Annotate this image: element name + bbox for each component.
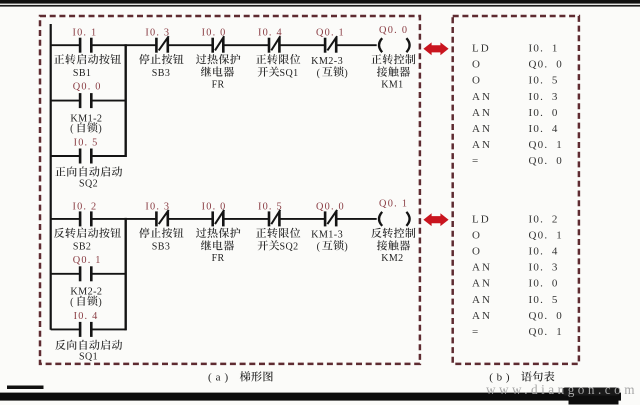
label Q0.1 branch rung2 bbox=[73, 255, 102, 266]
svg-text:SQ2: SQ2 bbox=[280, 242, 299, 253]
label Q0.1 coil rung2 bbox=[379, 199, 408, 210]
label Q0.0 branch rung1 bbox=[73, 81, 102, 92]
svg-text:I0. 3: I0. 3 bbox=[529, 91, 559, 103]
statement list block 2 bbox=[472, 214, 563, 338]
contact Q0.1 NC interlock KM2-3 bbox=[324, 36, 338, 53]
label Q0.0 rung2 bbox=[316, 202, 345, 213]
wire: rung 2 parallel branch 1 line bbox=[51, 273, 80, 275]
svg-text:SQ2: SQ2 bbox=[79, 179, 98, 190]
svg-text:AN: AN bbox=[472, 294, 492, 306]
svg-text:AN: AN bbox=[472, 278, 492, 290]
svg-text:(: ( bbox=[317, 68, 321, 79]
wire: rung 1 parallel branch 2 line bbox=[51, 155, 80, 157]
svg-text:I0. 5: I0. 5 bbox=[74, 138, 99, 149]
svg-text:I0. 4: I0. 4 bbox=[258, 28, 283, 39]
dashed frame around ladder diagram (a) bbox=[40, 16, 420, 364]
svg-text:AN: AN bbox=[472, 107, 492, 119]
label I0.0 rung1 bbox=[202, 28, 227, 39]
label I0.4 rung1 bbox=[258, 28, 283, 39]
bottom small black bar bbox=[7, 386, 44, 390]
contact I0.4 NO auto start SQ1 bbox=[79, 322, 93, 337]
contact Q0.0 NC interlock KM1-3 bbox=[324, 210, 338, 227]
svg-text:I0. 0: I0. 0 bbox=[529, 278, 559, 290]
label 正转限位开关SQ2 bbox=[256, 228, 300, 253]
bottom border band bbox=[0, 388, 621, 405]
wire: rung 1 parallel branch 1 line bbox=[51, 100, 80, 102]
label I0.3 rung2 bbox=[145, 202, 170, 213]
svg-text:I0. 0: I0. 0 bbox=[202, 28, 227, 39]
contact Q0.0 NO self-hold KM1-2 bbox=[79, 93, 93, 108]
svg-text:LD: LD bbox=[472, 43, 491, 55]
svg-text:SB3: SB3 bbox=[152, 68, 170, 79]
caption (a) ladder diagram bbox=[208, 371, 273, 383]
wire: rung 2 main line segments bbox=[51, 218, 377, 220]
svg-text:I0. 4: I0. 4 bbox=[529, 123, 559, 135]
svg-text:KM1-3: KM1-3 bbox=[311, 230, 343, 241]
label Q0.1 rung1 bbox=[316, 28, 345, 39]
svg-text:AN: AN bbox=[472, 91, 492, 103]
svg-text:I0. 2: I0. 2 bbox=[529, 214, 559, 226]
svg-text:O: O bbox=[472, 230, 482, 242]
svg-text:(: ( bbox=[208, 371, 212, 383]
svg-text:Q0. 0: Q0. 0 bbox=[316, 202, 345, 213]
svg-text:Q0. 0: Q0. 0 bbox=[73, 81, 102, 92]
svg-text:O: O bbox=[472, 75, 482, 87]
svg-text:FR: FR bbox=[212, 253, 225, 264]
label 停止按钮 SB3 rung1 bbox=[139, 54, 183, 79]
svg-text:a: a bbox=[216, 371, 221, 383]
svg-text:Q0. 1: Q0. 1 bbox=[73, 255, 102, 266]
red double arrow rung2 bbox=[423, 213, 448, 226]
svg-text:KM1: KM1 bbox=[381, 79, 403, 90]
svg-text:I0. 1: I0. 1 bbox=[72, 28, 97, 39]
svg-text:Q0. 0: Q0. 0 bbox=[529, 59, 563, 71]
label I0.3 rung1 bbox=[145, 28, 170, 39]
coil Q0.1 contactor KM2 bbox=[379, 212, 410, 226]
svg-text:I0. 3: I0. 3 bbox=[145, 202, 170, 213]
svg-text:O: O bbox=[472, 59, 482, 71]
contact I0.3 NC stop button SB3 rung 2 bbox=[155, 210, 169, 227]
contact I0.1 NO start button SB1 bbox=[79, 38, 93, 53]
statement list block 1 bbox=[472, 43, 563, 168]
svg-text:Q0. 1: Q0. 1 bbox=[316, 28, 345, 39]
label 正转启动按钮 SB1 bbox=[54, 54, 121, 79]
svg-text:I0. 3: I0. 3 bbox=[145, 28, 170, 39]
svg-text:AN: AN bbox=[472, 123, 492, 135]
svg-text:(: ( bbox=[70, 124, 74, 135]
dashed frame around statement list (b) bbox=[453, 16, 579, 364]
svg-text:KM2: KM2 bbox=[381, 253, 403, 264]
svg-text:SB3: SB3 bbox=[152, 242, 170, 253]
svg-text:LD: LD bbox=[472, 214, 491, 226]
svg-text:I0. 2: I0. 2 bbox=[72, 202, 97, 213]
svg-text:I0. 4: I0. 4 bbox=[74, 311, 99, 322]
svg-text:Q0. 1: Q0. 1 bbox=[529, 326, 563, 338]
svg-text:SQ1: SQ1 bbox=[280, 68, 299, 79]
svg-text:=: = bbox=[472, 155, 480, 167]
svg-text:=: = bbox=[472, 326, 480, 338]
top border band bbox=[0, 0, 640, 7]
svg-text:Q0. 0: Q0. 0 bbox=[529, 310, 563, 322]
label 停止按钮 SB3 rung2 bbox=[139, 228, 183, 253]
svg-text:I0. 3: I0. 3 bbox=[529, 262, 559, 274]
svg-text:Q0. 1: Q0. 1 bbox=[529, 230, 563, 242]
contact I0.0 NC overload relay FR rung 2 bbox=[211, 210, 224, 227]
label I0.0 rung2 bbox=[202, 202, 227, 213]
svg-text:I0. 5: I0. 5 bbox=[529, 75, 559, 87]
svg-text:KM2-2: KM2-2 bbox=[70, 287, 102, 298]
label KM1-2 自锁 bbox=[70, 113, 102, 134]
contact Q0.1 NO self-hold KM2-2 bbox=[79, 266, 93, 281]
label 正转控制接触器 KM1 bbox=[371, 54, 415, 90]
label I0.4 branch rung2 bbox=[74, 311, 99, 322]
label KM1-3 互锁 bbox=[311, 230, 348, 253]
svg-text:I0. 0: I0. 0 bbox=[202, 202, 227, 213]
contact I0.5 NO auto start SQ2 bbox=[79, 149, 93, 164]
svg-text:): ) bbox=[344, 68, 348, 79]
svg-text:): ) bbox=[344, 242, 348, 253]
contact I0.2 NO start button SB2 bbox=[79, 211, 93, 226]
label 过热保护继电器 FR rung1 bbox=[196, 54, 240, 90]
svg-text:): ) bbox=[225, 371, 229, 383]
svg-text:KM2-3: KM2-3 bbox=[311, 56, 343, 67]
wire: rung 2 parallel branch 2 line bbox=[51, 328, 80, 330]
wire: rung 2 branch rejoin vertical bbox=[124, 218, 126, 331]
label I0.5 branch rung1 bbox=[74, 138, 99, 149]
label KM2-3 互锁 bbox=[311, 56, 348, 79]
wire: rung 1 main line segments bbox=[51, 44, 377, 46]
svg-text:Q0. 0: Q0. 0 bbox=[379, 25, 408, 36]
label 正向自动启动 SQ2 bbox=[55, 166, 122, 189]
wire: rung 1 branch rejoin vertical bbox=[124, 44, 126, 157]
svg-text:AN: AN bbox=[472, 139, 492, 151]
svg-text:I0. 1: I0. 1 bbox=[529, 43, 559, 55]
svg-text:I0. 5: I0. 5 bbox=[529, 294, 559, 306]
svg-text:): ) bbox=[98, 124, 102, 135]
label KM2-2 自锁 bbox=[70, 287, 102, 309]
svg-text:AN: AN bbox=[472, 262, 492, 274]
svg-text:): ) bbox=[98, 297, 102, 308]
contact I0.3 NC stop button SB3 rung 1 bbox=[155, 36, 169, 53]
svg-text:O: O bbox=[472, 246, 482, 258]
wire: left power rail bbox=[50, 24, 52, 330]
label 反转启动按钮 SB2 bbox=[54, 228, 121, 253]
watermark www.diangon.com bbox=[486, 382, 638, 397]
svg-text:Q0. 0: Q0. 0 bbox=[529, 155, 563, 167]
svg-text:SQ1: SQ1 bbox=[79, 352, 98, 363]
coil Q0.0 contactor KM1 bbox=[379, 38, 410, 52]
label I0.5 rung2 bbox=[258, 202, 283, 213]
svg-text:Q0. 1: Q0. 1 bbox=[529, 139, 563, 151]
svg-text:I0. 0: I0. 0 bbox=[529, 107, 559, 119]
contact I0.0 NC overload relay FR rung 1 bbox=[211, 36, 224, 53]
svg-text:FR: FR bbox=[212, 79, 225, 90]
svg-text:(: ( bbox=[70, 297, 74, 308]
svg-text:SB1: SB1 bbox=[73, 68, 91, 79]
label 过热保护继电器 FR rung2 bbox=[196, 228, 240, 264]
red double arrow rung1 bbox=[423, 42, 448, 55]
contact I0.5 NC limit switch SQ2 bbox=[268, 210, 281, 227]
svg-text:(: ( bbox=[317, 242, 321, 253]
svg-text:SB2: SB2 bbox=[73, 242, 91, 253]
label 正转限位开关SQ1 bbox=[256, 54, 300, 79]
label I0.1 bbox=[72, 28, 97, 39]
svg-text:I0. 4: I0. 4 bbox=[529, 246, 559, 258]
label 反向自动启动 SQ1 bbox=[55, 340, 122, 363]
svg-text:I0. 5: I0. 5 bbox=[258, 202, 283, 213]
contact I0.4 NC limit switch SQ1 bbox=[268, 36, 281, 53]
caption (b) statement list bbox=[489, 371, 554, 383]
label Q0.0 coil rung1 bbox=[379, 25, 408, 36]
svg-text:www.diangon.com: www.diangon.com bbox=[486, 382, 638, 397]
label 反转控制接触器 KM2 bbox=[371, 228, 415, 264]
svg-text:AN: AN bbox=[472, 310, 492, 322]
svg-text:Q0. 1: Q0. 1 bbox=[379, 199, 408, 210]
label I0.2 bbox=[72, 202, 97, 213]
